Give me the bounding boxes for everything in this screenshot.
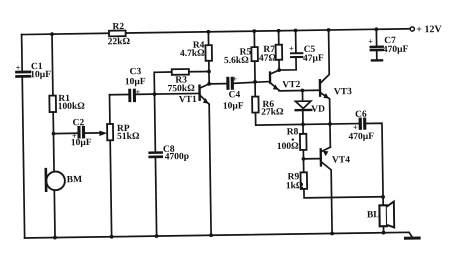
- svg-text:10µF: 10µF: [223, 101, 244, 111]
- svg-text:+: +: [289, 43, 294, 53]
- svg-text:100Ω: 100Ω: [277, 142, 299, 152]
- svg-text:C2: C2: [73, 118, 85, 128]
- svg-text:4700p: 4700p: [165, 152, 189, 162]
- svg-text:750kΩ: 750kΩ: [168, 84, 196, 94]
- svg-text:VT1: VT1: [179, 95, 197, 105]
- svg-text:100kΩ: 100kΩ: [58, 102, 86, 112]
- svg-text:51kΩ: 51kΩ: [117, 132, 140, 142]
- svg-text:+: +: [232, 74, 237, 84]
- svg-text:47µF: 47µF: [303, 54, 324, 64]
- svg-text:BM: BM: [67, 175, 82, 185]
- svg-text:VT4: VT4: [332, 155, 350, 165]
- svg-text:+: +: [353, 122, 358, 132]
- svg-text:27kΩ: 27kΩ: [261, 107, 284, 117]
- svg-text:22kΩ: 22kΩ: [108, 37, 131, 47]
- svg-text:C6: C6: [355, 110, 367, 120]
- svg-text:R8: R8: [287, 127, 299, 137]
- svg-text:VD: VD: [311, 105, 325, 115]
- svg-text:+: +: [72, 131, 77, 141]
- svg-text:R2: R2: [112, 22, 124, 32]
- svg-text:C4: C4: [229, 90, 241, 100]
- svg-text:+: +: [135, 87, 140, 97]
- svg-text:470µF: 470µF: [348, 132, 374, 142]
- svg-text:VT3: VT3: [334, 87, 352, 97]
- svg-text:BL: BL: [367, 210, 380, 220]
- svg-text:+ 12V: + 12V: [416, 24, 442, 35]
- svg-text:+: +: [16, 62, 21, 72]
- svg-text:5.6kΩ: 5.6kΩ: [224, 56, 249, 66]
- svg-text:1kΩ: 1kΩ: [286, 181, 304, 191]
- svg-text:VT2: VT2: [282, 80, 300, 90]
- svg-text:470µF: 470µF: [383, 45, 409, 55]
- svg-text:10µF: 10µF: [30, 70, 51, 80]
- svg-text:47Ω: 47Ω: [259, 53, 277, 63]
- svg-text:4.7kΩ: 4.7kΩ: [180, 49, 205, 59]
- svg-text:+: +: [368, 36, 373, 46]
- svg-text:C3: C3: [130, 67, 142, 77]
